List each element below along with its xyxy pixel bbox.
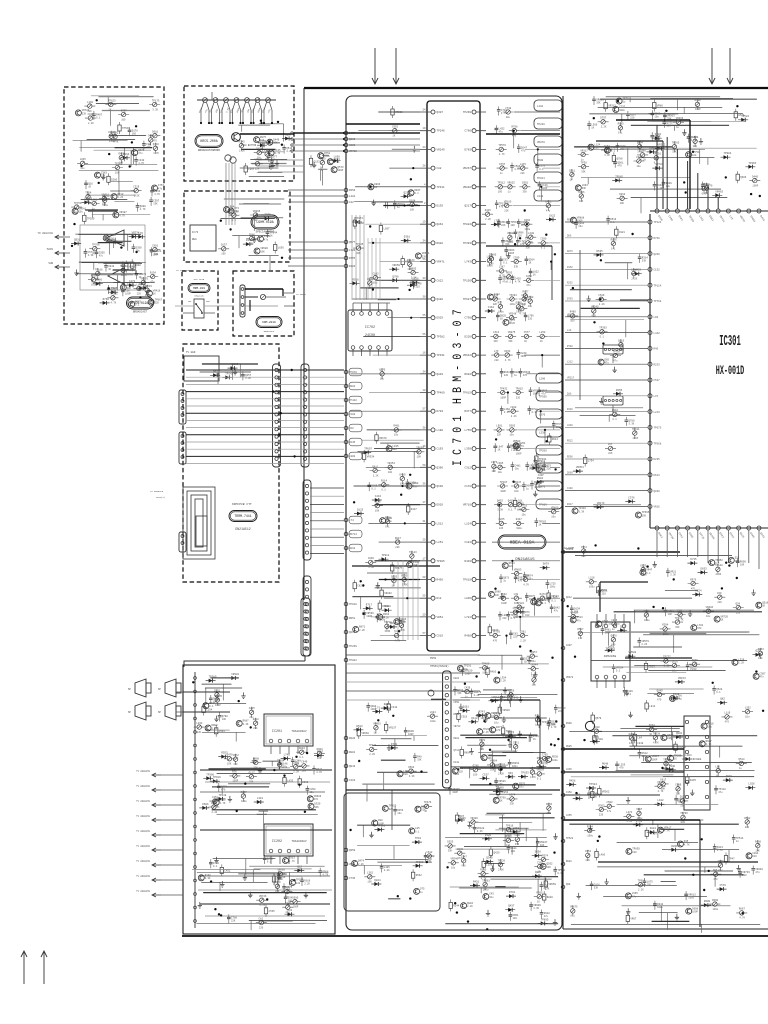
svg-text:Q161: Q161 [463, 706, 470, 709]
svg-text:Q780: Q780 [473, 765, 480, 768]
svg-text:100: 100 [221, 253, 226, 256]
svg-text:NJM2068: NJM2068 [604, 655, 617, 658]
svg-text:0.1: 0.1 [267, 861, 272, 864]
svg-text:10u: 10u [666, 185, 671, 188]
svg-text:2.2K: 2.2K [627, 820, 633, 823]
svg-text:L96: L96 [264, 149, 269, 152]
svg-text:10K: 10K [758, 657, 763, 660]
svg-text:47u: 47u [499, 206, 504, 209]
svg-text:TP248: TP248 [537, 123, 545, 126]
svg-text:TO 100mVTR: TO 100mVTR [176, 269, 190, 272]
svg-text:R916: R916 [123, 153, 130, 156]
svg-text:R877: R877 [523, 291, 530, 294]
svg-text:R910: R910 [594, 726, 601, 729]
svg-text:Q780: Q780 [617, 157, 624, 160]
svg-text:D447: D447 [516, 518, 523, 521]
svg-text:R146: R146 [567, 408, 573, 411]
svg-text:33K: 33K [448, 850, 453, 853]
svg-text:TV 800mVCH: TV 800mVCH [136, 815, 150, 818]
svg-text:D749: D749 [391, 743, 398, 746]
svg-text:R755: R755 [349, 257, 356, 260]
svg-text:22K: 22K [253, 766, 258, 769]
svg-text:BROADCAST&MONO: BROADCAST&MONO [198, 149, 220, 152]
svg-text:DTCS-019A: DTCS-019A [131, 301, 148, 305]
svg-text:100P: 100P [508, 252, 514, 255]
svg-text:10u: 10u [234, 210, 239, 213]
svg-text:Q606: Q606 [740, 176, 747, 179]
svg-text:L904: L904 [685, 754, 692, 757]
svg-text:D614: D614 [552, 438, 559, 441]
svg-text:L84: L84 [637, 736, 642, 739]
svg-text:22K: 22K [428, 858, 433, 861]
svg-text:4.7K: 4.7K [691, 139, 697, 142]
svg-text:2.2K: 2.2K [117, 196, 123, 199]
svg-text:Q901: Q901 [676, 732, 683, 735]
svg-text:TP312: TP312 [497, 182, 505, 185]
svg-text:TP143: TP143 [409, 551, 417, 554]
svg-text:C750: C750 [465, 317, 472, 320]
svg-text:D507: D507 [458, 815, 465, 818]
svg-text:10u: 10u [706, 615, 711, 618]
svg-text:0.1: 0.1 [415, 830, 420, 833]
svg-text:100: 100 [693, 145, 698, 148]
svg-text:C182: C182 [373, 273, 380, 276]
svg-text:22K: 22K [231, 920, 236, 923]
svg-text:D870: D870 [275, 881, 282, 884]
svg-text:MUX MUTE: MUX MUTE [194, 278, 205, 281]
svg-text:D653: D653 [701, 567, 708, 570]
svg-text:10u: 10u [745, 716, 750, 719]
svg-text:4.7K: 4.7K [212, 805, 218, 808]
svg-text:10u: 10u [637, 165, 642, 168]
svg-text:IC701: IC701 [451, 411, 466, 466]
svg-text:22K: 22K [459, 770, 464, 773]
svg-text:TP522: TP522 [566, 837, 574, 840]
svg-text:100P: 100P [408, 733, 414, 736]
svg-text:34: 34 [422, 370, 426, 373]
svg-text:33K: 33K [153, 202, 158, 205]
svg-text:28: 28 [422, 165, 426, 168]
svg-text:100: 100 [514, 490, 519, 493]
svg-text:L37: L37 [654, 395, 659, 398]
svg-text:IC202: IC202 [272, 840, 282, 844]
svg-text:VR659: VR659 [548, 883, 556, 886]
svg-text:V118 BUTTON: V118 BUTTON [241, 144, 257, 147]
svg-text:VR972: VR972 [566, 676, 574, 679]
svg-text:L547: L547 [461, 856, 468, 859]
svg-text:VR54: VR54 [437, 616, 444, 619]
svg-text:C519: C519 [437, 635, 444, 638]
svg-text:R820: R820 [547, 896, 554, 899]
svg-text:L755: L755 [465, 429, 472, 432]
svg-text:100: 100 [288, 900, 293, 903]
svg-text:D503: D503 [509, 425, 516, 428]
svg-text:2.2K: 2.2K [716, 573, 722, 576]
svg-text:0.1: 0.1 [381, 489, 386, 492]
svg-text:100P: 100P [367, 287, 373, 290]
svg-text:L569: L569 [260, 140, 267, 143]
svg-text:R951: R951 [349, 617, 356, 620]
svg-text:C158: C158 [566, 791, 572, 794]
svg-text:55: 55 [422, 595, 426, 598]
svg-text:TP903: TP903 [378, 825, 386, 828]
svg-text:R831: R831 [671, 845, 678, 848]
svg-text:D818: D818 [349, 547, 356, 550]
svg-text:R798: R798 [512, 126, 519, 129]
svg-text:C915: C915 [88, 113, 95, 116]
svg-text:TP19: TP19 [415, 837, 422, 840]
svg-text:VR317: VR317 [580, 149, 588, 152]
svg-text:10K: 10K [513, 751, 518, 754]
svg-text:D204: D204 [454, 677, 460, 680]
svg-text:R40: R40 [654, 348, 659, 351]
svg-text:MAIN(S): MAIN(S) [156, 496, 165, 499]
svg-text:VR69: VR69 [593, 737, 600, 740]
svg-text:TP568: TP568 [654, 442, 662, 445]
svg-text:10u: 10u [510, 434, 515, 437]
svg-text:22K: 22K [546, 467, 551, 470]
svg-text:Q849: Q849 [437, 373, 444, 376]
svg-text:C576: C576 [628, 496, 635, 499]
svg-text:18: 18 [422, 389, 426, 392]
svg-text:Q586: Q586 [249, 233, 256, 236]
svg-text:KRM-2019: KRM-2019 [262, 321, 276, 324]
svg-text:TP768: TP768 [654, 300, 662, 303]
svg-text:D641: D641 [644, 610, 651, 613]
svg-text:22K: 22K [499, 527, 504, 530]
svg-text:220: 220 [259, 926, 264, 929]
svg-text:VR124: VR124 [567, 313, 575, 316]
svg-text:0.1: 0.1 [507, 281, 512, 284]
svg-text:47u: 47u [546, 209, 551, 212]
svg-text:10u: 10u [310, 791, 315, 794]
svg-text:Q864: Q864 [437, 223, 444, 226]
svg-text:470: 470 [496, 729, 501, 732]
svg-text:470: 470 [461, 865, 466, 868]
svg-text:100u: 100u [525, 228, 531, 231]
svg-text:D881: D881 [650, 827, 657, 830]
svg-text:0.1: 0.1 [209, 705, 214, 708]
svg-text:470: 470 [523, 374, 528, 377]
svg-text:L73: L73 [494, 350, 499, 353]
svg-text:59: 59 [422, 464, 426, 467]
svg-text:C689: C689 [675, 784, 682, 787]
svg-text:4.7K: 4.7K [145, 294, 151, 297]
svg-text:0.1: 0.1 [503, 262, 508, 265]
svg-text:22K: 22K [395, 546, 400, 549]
svg-text:VR576: VR576 [141, 277, 149, 280]
svg-text:SP: SP [158, 688, 162, 691]
svg-text:D716: D716 [521, 504, 528, 507]
svg-text:TP649: TP649 [219, 794, 227, 797]
svg-text:L387: L387 [499, 266, 506, 269]
svg-text:R157: R157 [241, 791, 248, 794]
svg-text:L754: L754 [588, 460, 595, 463]
svg-text:VR588: VR588 [628, 651, 636, 654]
svg-text:IC903: IC903 [605, 647, 615, 651]
svg-text:10K: 10K [127, 287, 132, 290]
svg-text:C216: C216 [375, 495, 382, 498]
svg-text:D637: D637 [349, 132, 356, 135]
svg-text:10u: 10u [257, 157, 262, 160]
svg-text:4.7K: 4.7K [275, 152, 281, 155]
svg-text:100u: 100u [506, 834, 512, 837]
svg-text:R410: R410 [490, 671, 497, 674]
svg-text:100: 100 [154, 253, 159, 256]
svg-text:D826: D826 [672, 660, 679, 663]
svg-text:R233: R233 [654, 363, 661, 366]
svg-text:Q437: Q437 [508, 905, 515, 908]
svg-text:100u: 100u [102, 204, 108, 207]
svg-text:TP489: TP489 [496, 787, 504, 790]
svg-text:57: 57 [422, 408, 426, 411]
svg-text:D894: D894 [299, 747, 306, 750]
svg-text:C822: C822 [549, 214, 556, 217]
svg-text:47u: 47u [521, 149, 526, 152]
svg-text:220: 220 [494, 359, 499, 362]
svg-text:R224: R224 [695, 590, 702, 593]
svg-text:D580: D580 [292, 897, 299, 900]
svg-text:3.3K: 3.3K [578, 510, 584, 513]
svg-text:TP465: TP465 [748, 162, 756, 165]
svg-text:Q219: Q219 [349, 631, 356, 634]
svg-text:0.1: 0.1 [616, 670, 621, 673]
svg-text:470: 470 [619, 767, 624, 770]
svg-text:TV 800mVCH: TV 800mVCH [136, 830, 150, 833]
svg-text:47u: 47u [499, 131, 504, 134]
svg-text:10u: 10u [532, 684, 537, 687]
svg-text:C399: C399 [513, 256, 520, 259]
svg-text:33K: 33K [552, 723, 557, 726]
svg-text:L71: L71 [375, 707, 380, 710]
svg-text:33K: 33K [667, 118, 672, 121]
svg-text:D489: D489 [400, 473, 407, 476]
svg-text:D797: D797 [600, 117, 607, 120]
svg-text:D286: D286 [111, 178, 118, 181]
svg-text:0.1: 0.1 [618, 132, 623, 135]
svg-text:VR860: VR860 [551, 507, 559, 510]
svg-text:220: 220 [416, 286, 421, 289]
svg-text:TV 800mVCH: TV 800mVCH [136, 785, 150, 788]
svg-text:L442: L442 [654, 332, 661, 335]
svg-text:100u: 100u [713, 908, 719, 911]
svg-text:D984: D984 [349, 385, 356, 388]
svg-text:0.1: 0.1 [702, 192, 707, 195]
svg-text:100u: 100u [550, 585, 556, 588]
svg-text:47u: 47u [607, 810, 612, 813]
svg-text:L258: L258 [539, 331, 546, 334]
svg-text:L38: L38 [514, 593, 519, 596]
svg-text:L249: L249 [528, 232, 535, 235]
svg-text:47u: 47u [150, 280, 155, 283]
svg-text:100: 100 [119, 162, 124, 165]
svg-text:R743: R743 [479, 710, 486, 713]
svg-text:2.2K: 2.2K [134, 195, 140, 198]
svg-text:TP707: TP707 [649, 832, 657, 835]
svg-text:VR202: VR202 [384, 592, 392, 595]
svg-text:Q260: Q260 [654, 253, 661, 256]
svg-text:22K: 22K [585, 859, 590, 862]
svg-text:0.1: 0.1 [611, 150, 616, 153]
svg-text:D634: D634 [649, 724, 656, 727]
svg-text:R604: R604 [465, 373, 472, 376]
svg-text:Q119: Q119 [618, 340, 625, 343]
svg-text:L338: L338 [539, 432, 546, 435]
svg-text:D638: D638 [302, 781, 309, 784]
svg-text:VR668: VR668 [361, 732, 369, 735]
svg-text:2.2K: 2.2K [520, 639, 526, 642]
svg-text:L833: L833 [287, 780, 294, 783]
svg-text:22K: 22K [255, 168, 260, 171]
svg-text:100P: 100P [577, 220, 583, 223]
svg-text:2.2K: 2.2K [601, 126, 607, 129]
svg-text:L486: L486 [599, 853, 606, 856]
svg-text:C181: C181 [465, 541, 472, 544]
svg-text:R690: R690 [712, 899, 719, 902]
svg-text:L811: L811 [649, 705, 656, 708]
svg-text:Q231: Q231 [214, 690, 221, 693]
svg-text:MRM-019: MRM-019 [193, 287, 205, 290]
svg-text:4.7K: 4.7K [138, 162, 144, 165]
svg-text:220: 220 [317, 757, 322, 760]
svg-text:VR86: VR86 [657, 105, 664, 108]
svg-text:D150: D150 [412, 278, 419, 281]
svg-text:D152: D152 [567, 266, 573, 269]
svg-text:24: 24 [422, 146, 426, 149]
svg-text:29: 29 [422, 613, 426, 616]
svg-text:D148: D148 [454, 761, 460, 764]
svg-text:TP708: TP708 [92, 244, 100, 247]
svg-text:TP445: TP445 [356, 243, 364, 246]
svg-text:VR753: VR753 [498, 763, 506, 766]
svg-text:0.1: 0.1 [513, 449, 518, 452]
svg-text:Q670: Q670 [379, 369, 386, 372]
svg-text:4.7K: 4.7K [399, 629, 405, 632]
svg-text:220: 220 [516, 396, 521, 399]
svg-text:10K: 10K [417, 456, 422, 459]
svg-text:2.2K: 2.2K [509, 322, 515, 325]
svg-text:L415: L415 [520, 163, 527, 166]
svg-text:TP231: TP231 [701, 183, 709, 186]
svg-text:0.1: 0.1 [385, 525, 390, 528]
svg-text:0.1: 0.1 [716, 691, 721, 694]
svg-text:47u: 47u [158, 187, 163, 190]
svg-text:2.2K: 2.2K [384, 869, 390, 872]
svg-text:2.2K: 2.2K [212, 727, 218, 730]
svg-text:L181: L181 [537, 105, 544, 108]
svg-text:Q676: Q676 [692, 659, 699, 662]
svg-text:VR163: VR163 [231, 363, 239, 366]
svg-text:Q117: Q117 [249, 772, 256, 775]
svg-text:TV 800mVCH: TV 800mVCH [136, 875, 150, 878]
svg-text:3.3K: 3.3K [497, 509, 503, 512]
svg-text:4.7K: 4.7K [501, 112, 507, 115]
svg-text:D447: D447 [411, 508, 418, 511]
svg-text:R145: R145 [349, 441, 356, 444]
svg-text:22K: 22K [676, 793, 681, 796]
svg-text:33K: 33K [457, 692, 462, 695]
svg-text:10u: 10u [394, 434, 399, 437]
svg-text:100P: 100P [91, 284, 97, 287]
svg-text:L425: L425 [635, 269, 642, 272]
svg-text:10K: 10K [407, 268, 412, 271]
svg-text:SP: SP [128, 711, 132, 714]
svg-text:R460: R460 [755, 840, 762, 843]
svg-text:IC201: IC201 [272, 730, 282, 734]
svg-text:220: 220 [389, 808, 394, 811]
svg-text:C650: C650 [454, 701, 460, 704]
svg-text:Q880: Q880 [437, 298, 444, 301]
svg-text:R648: R648 [602, 763, 609, 766]
svg-text:D137: D137 [221, 244, 228, 247]
svg-text:47u: 47u [605, 362, 610, 365]
svg-text:VR870: VR870 [537, 141, 545, 144]
svg-text:4.7K: 4.7K [499, 275, 505, 278]
svg-text:C705: C705 [542, 753, 549, 756]
svg-text:100u: 100u [121, 274, 127, 277]
svg-text:30: 30 [422, 296, 426, 299]
svg-text:10u: 10u [551, 516, 556, 519]
svg-text:10K: 10K [375, 510, 380, 513]
svg-text:R940: R940 [601, 589, 608, 592]
svg-text:TP853: TP853 [501, 791, 509, 794]
svg-text:R451: R451 [473, 880, 480, 883]
svg-text:D196: D196 [579, 191, 586, 194]
svg-text:22K: 22K [410, 560, 415, 563]
svg-text:TP331: TP331 [437, 354, 445, 357]
svg-text:Q978: Q978 [479, 739, 486, 742]
svg-text:C416: C416 [349, 779, 356, 782]
svg-text:2.2K: 2.2K [474, 694, 480, 697]
svg-text:Q712: Q712 [454, 749, 460, 752]
svg-text:R867: R867 [739, 908, 746, 911]
svg-text:VR275: VR275 [508, 331, 516, 334]
svg-text:10K: 10K [481, 717, 486, 720]
svg-text:TP978: TP978 [349, 371, 357, 374]
svg-text:C82: C82 [437, 167, 442, 170]
svg-text:R902: R902 [437, 242, 444, 245]
svg-text:C284: C284 [285, 134, 292, 137]
svg-text:Q978: Q978 [726, 775, 733, 778]
svg-text:C822: C822 [437, 279, 444, 282]
svg-text:L935: L935 [80, 158, 87, 161]
svg-text:0.1: 0.1 [542, 602, 547, 605]
svg-text:VR702: VR702 [349, 150, 357, 153]
svg-text:10u: 10u [578, 225, 583, 228]
svg-text:2.2K: 2.2K [304, 883, 310, 886]
svg-text:VR54: VR54 [349, 863, 356, 866]
svg-text:0.1: 0.1 [629, 742, 634, 745]
svg-text:C152: C152 [654, 269, 661, 272]
svg-text:L940: L940 [537, 195, 544, 198]
svg-text:D681: D681 [152, 131, 159, 134]
svg-text:TMS59(MVECB): TMS59(MVECB) [430, 664, 449, 668]
svg-text:22K: 22K [497, 434, 502, 437]
svg-text:10K: 10K [227, 763, 232, 766]
svg-text:TP114: TP114 [654, 284, 662, 287]
svg-text:D349: D349 [246, 239, 253, 242]
svg-text:C286: C286 [96, 279, 103, 282]
svg-text:10K: 10K [540, 844, 545, 847]
svg-text:C529: C529 [598, 294, 605, 297]
svg-text:4.7K: 4.7K [654, 138, 660, 141]
svg-text:4.7K: 4.7K [119, 214, 125, 217]
svg-text:C898: C898 [367, 278, 374, 281]
svg-text:10u: 10u [79, 211, 84, 214]
svg-text:SUB: SUB [48, 262, 53, 265]
svg-text:3.3K: 3.3K [205, 877, 211, 880]
svg-text:L67: L67 [608, 443, 613, 446]
